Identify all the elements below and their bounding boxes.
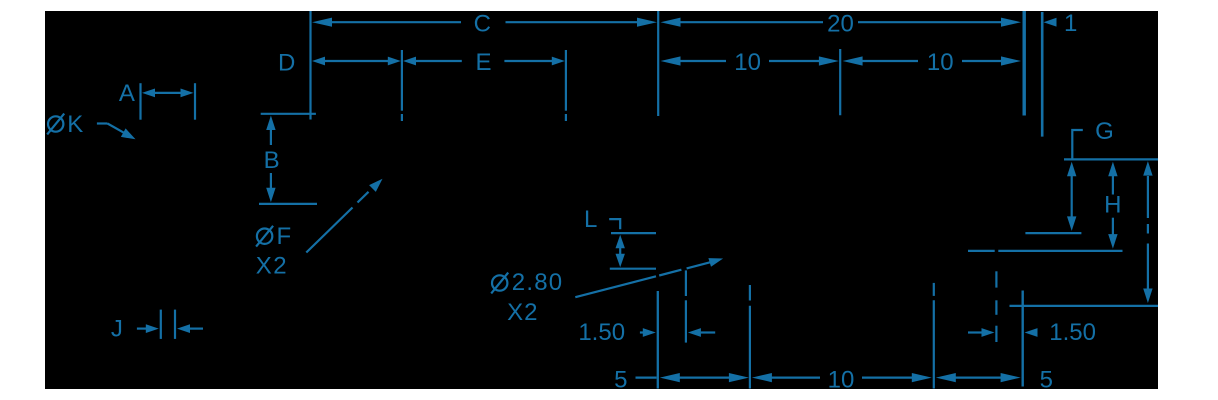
svg-text:L: L — [584, 206, 597, 233]
svg-text:F: F — [277, 223, 292, 250]
extension line (left part edge, top) — [309, 11, 311, 120]
dimension 5 (bottom right) — [936, 366, 1053, 393]
extension line bottom mid-right — [933, 283, 935, 389]
svg-text:5: 5 — [1040, 366, 1053, 393]
dimension A — [119, 80, 195, 120]
dimension G — [1067, 162, 1076, 231]
datum line top right — [1064, 158, 1158, 160]
overall height dimension (dash-dot, right) — [1143, 161, 1152, 303]
datum line H bottom (dash-dot) — [968, 250, 1123, 252]
svg-text:B: B — [264, 147, 280, 174]
dimension 10 (top right) — [843, 49, 1021, 76]
centerline mid (vertical) — [839, 49, 841, 115]
dimension 1 — [1044, 10, 1078, 37]
leader for 2.80 — [575, 258, 723, 297]
dimension 20 — [661, 11, 1022, 38]
dimension J — [111, 310, 203, 343]
dimension E — [403, 49, 565, 76]
svg-text:10: 10 — [927, 49, 954, 76]
svg-text:2.80: 2.80 — [512, 269, 564, 296]
extension line (right part edge, thick) — [1022, 11, 1025, 116]
bracket for L — [609, 219, 620, 229]
leader for F — [306, 179, 382, 253]
dimension H — [1104, 162, 1121, 249]
svg-text:20: 20 — [827, 11, 854, 38]
svg-text:H: H — [1104, 192, 1121, 219]
dimension D — [278, 49, 401, 76]
label diameter 2.80 X2 — [491, 269, 563, 326]
extension line (right offset edge) — [1041, 12, 1044, 137]
svg-text:J: J — [111, 315, 123, 342]
svg-text:D: D — [278, 49, 295, 76]
dimension 10 (bottom) — [752, 366, 932, 393]
svg-text:X2: X2 — [507, 299, 538, 326]
centerline hole 2 (vertical) — [565, 50, 567, 121]
datum line G bottom — [1025, 232, 1081, 234]
extension line bottom left hole — [657, 291, 659, 389]
dimension 1.50 (right) — [968, 319, 1096, 346]
centerline bottom hole left — [685, 270, 687, 342]
centerline hole 1 (vertical) — [401, 50, 403, 121]
centerline bottom hole right — [995, 271, 997, 342]
label G — [1095, 118, 1114, 145]
extension line bottom right edge — [1022, 291, 1024, 387]
svg-text:X2: X2 — [256, 253, 288, 280]
svg-text:1.50: 1.50 — [1049, 319, 1096, 346]
dimension B — [259, 116, 317, 204]
svg-text:G: G — [1095, 118, 1114, 145]
svg-text:10: 10 — [828, 366, 855, 393]
part step corner (top line of B) — [261, 113, 316, 115]
svg-text:K: K — [67, 111, 83, 138]
dimension 10 (top left) — [661, 49, 839, 76]
label diameter K — [47, 111, 83, 138]
extension line (center top) — [657, 11, 659, 116]
svg-text:A: A — [119, 80, 135, 107]
dimension 1.50 (left) — [578, 319, 715, 346]
svg-text:1: 1 — [1064, 10, 1077, 37]
svg-text:E: E — [475, 49, 491, 76]
svg-text:1.50: 1.50 — [578, 319, 625, 346]
svg-text:10: 10 — [734, 49, 761, 76]
dimension C — [312, 11, 657, 38]
datum line bottom right — [1010, 305, 1159, 307]
svg-text:C: C — [474, 11, 491, 38]
label diameter F X2 — [256, 223, 291, 280]
bracket for G — [1072, 130, 1083, 159]
leader for K — [97, 124, 136, 140]
extension line bottom mid-left — [749, 285, 751, 389]
dimension L — [610, 233, 656, 269]
label L — [584, 206, 597, 233]
dimension 5 (bottom left) — [614, 366, 749, 393]
svg-text:5: 5 — [614, 366, 627, 393]
